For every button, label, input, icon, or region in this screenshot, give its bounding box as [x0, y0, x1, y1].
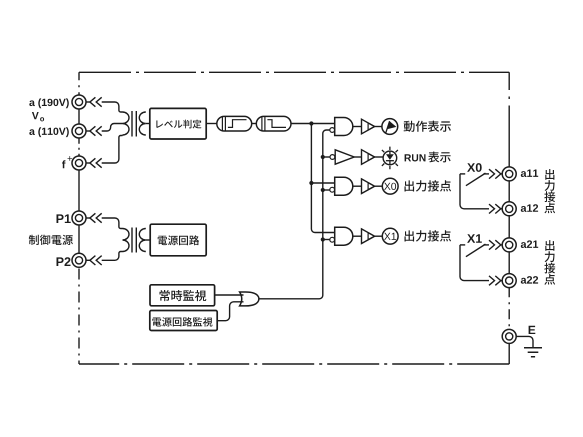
chevron f+ [90, 158, 96, 167]
contact X0 [460, 173, 465, 175]
label a11 [521, 170, 538, 178]
label f+ [62, 156, 72, 168]
wire G4 to A4 [353, 235, 362, 237]
ground symbol [524, 348, 542, 357]
chevron P1 [90, 213, 96, 222]
label a21 [521, 240, 538, 248]
label a12 [521, 204, 538, 212]
wire E terminal to ground [516, 336, 533, 347]
wire G2 to A2 [354, 156, 361, 158]
transformer T1 core [132, 111, 136, 137]
terminal P1 [72, 211, 86, 225]
chevron a(110V) [90, 126, 96, 135]
terminal E [502, 329, 516, 343]
wire monitor bus to G4 bubble [323, 239, 330, 241]
RUN lamp rays [382, 147, 398, 170]
wire A2 to RUN lamp [375, 156, 384, 158]
label X0 [467, 163, 482, 172]
label a(110V) [29, 127, 69, 137]
label 出力接点 vertical 1 [544, 169, 555, 213]
chevron P2 [90, 256, 96, 265]
wire T2 to power-circuit [146, 239, 150, 241]
chevron a(190V) [90, 97, 96, 106]
wire level-detector to timer TD1 [206, 123, 217, 125]
block 電源回路 (power circuit) [150, 224, 206, 256]
terminal f+ [72, 156, 86, 170]
amplifier A1 [362, 119, 375, 134]
enclosure border left [78, 72, 80, 95]
input bubble G3 [330, 187, 335, 192]
timer TD1 (delay pickup) [217, 116, 252, 131]
wire monitor bus to G2 bubble [323, 156, 330, 158]
RUN lamp LED [383, 151, 397, 165]
wire power-monitor to OR [217, 302, 243, 321]
block レベル判定 (level detector) [150, 108, 206, 139]
enclosure border top [79, 71, 509, 73]
node signal bus G1 [309, 121, 313, 125]
input bubble G1 [330, 128, 335, 133]
wire G1 to A1 [353, 126, 362, 128]
terminal a11 [502, 167, 516, 181]
wire a(110V) to T1 tap [102, 124, 123, 132]
node monitor bus G2 [321, 155, 325, 159]
wire G3 to A3 [353, 185, 362, 187]
label P1 [57, 214, 71, 223]
label RUN表示 [405, 154, 426, 161]
wire signal bus vertical [311, 124, 334, 233]
transformer T2 secondary winding [139, 229, 145, 252]
wire branch to G3 [311, 182, 334, 184]
wire P1 to T2 [102, 218, 123, 229]
terminal a(110V) [72, 124, 86, 138]
terminal a12 [502, 202, 516, 216]
AND gate G3 [335, 177, 353, 195]
wire constant-monitor to OR [215, 294, 244, 296]
timer TD2 (delay dropout) [256, 116, 291, 131]
chevron a11 [489, 169, 495, 178]
amplifier A3 [362, 179, 375, 194]
wire A4 to relay X1 [375, 235, 383, 237]
terminal a21 [502, 238, 516, 252]
wire P2 to T2 [102, 252, 123, 261]
wire monitor bus to G3 bubble [323, 189, 330, 191]
label 動作表示 [404, 121, 451, 132]
node monitor bus G3 [321, 188, 325, 192]
label 出力接点 vertical 2 [544, 240, 555, 285]
input bubble G4 [330, 237, 335, 242]
operate indicator flag [382, 119, 398, 135]
block 電源回路監視 (power supply monitor) [150, 311, 217, 331]
wire TD1 to TD2 [252, 123, 257, 125]
wire A3 to relay X0 [375, 185, 383, 187]
label Vo [32, 112, 44, 121]
contact X1 [460, 244, 465, 246]
relay coil X1 [382, 228, 398, 244]
label X1 [467, 234, 482, 243]
label 制御電源 [29, 235, 73, 245]
label a22 [521, 276, 538, 284]
enclosure border right [508, 72, 510, 167]
OR gate G5 [240, 292, 259, 306]
label 出力接点 row3 [405, 180, 452, 191]
wire f+ to T1 [102, 136, 123, 164]
AND gate G4 [335, 227, 353, 245]
wire T1 to level-detector [146, 123, 150, 125]
wire TD2 to gate G1 [291, 123, 335, 125]
amplifier A2 [362, 150, 375, 165]
label a(190V) [29, 98, 69, 108]
wire monitor bus vertical [259, 130, 330, 299]
transformer T1 primary winding [123, 112, 130, 135]
chevron a22 [489, 276, 495, 285]
relay coil X0 [382, 178, 398, 194]
label E [529, 326, 536, 334]
terminal P2 [72, 253, 86, 267]
transformer T2 core [132, 228, 136, 253]
terminal a(190V) [72, 95, 86, 109]
amplifier A4 [362, 229, 375, 244]
chevron a21 [489, 240, 495, 249]
wire A1 to operate flag [375, 126, 382, 128]
label P2 [57, 257, 71, 266]
label 出力接点 row4 [405, 230, 452, 241]
transformer T2 primary winding [123, 229, 130, 252]
block 常時監視 (constant monitor) [150, 285, 215, 306]
node signal bus G3 [309, 181, 313, 185]
terminal a22 [502, 274, 516, 288]
node monitor bus G4 [321, 237, 325, 241]
chevron a12 [489, 204, 495, 213]
AND gate G1 [335, 118, 353, 136]
inverter G2 [330, 155, 335, 160]
wire a(190V) to T1 [102, 102, 123, 112]
transformer T1 secondary winding [139, 112, 145, 135]
enclosure border bottom [79, 363, 509, 365]
